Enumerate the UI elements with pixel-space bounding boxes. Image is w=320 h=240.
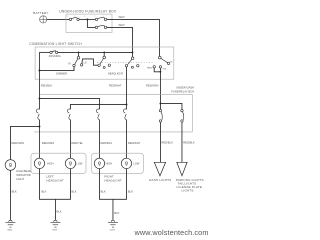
svg-text:BLK: BLK	[41, 190, 46, 194]
ground G201	[50, 220, 60, 231]
wire battery to under-hood box	[47, 18, 70, 20]
fuse F4	[159, 109, 162, 122]
svg-text:HEADLIGHT: HEADLIGHT	[104, 178, 122, 182]
node dimmer stub	[78, 52, 80, 54]
ground G401	[5, 220, 15, 231]
svg-text:BATTERY: BATTERY	[33, 11, 48, 15]
svg-text:BLK: BLK	[114, 211, 119, 215]
svg-text:G201: G201	[52, 229, 58, 231]
mechanical linkage dotted line	[97, 61, 154, 63]
wire RED/BLK vertical	[38, 52, 40, 79]
fuse F2	[95, 18, 106, 21]
svg-text:HI: HI	[68, 64, 71, 66]
left headlight box	[31, 153, 86, 173]
bus low beams	[70, 104, 126, 109]
wire F1 to junction	[79, 18, 87, 20]
svg-text:RED/BLK: RED/BLK	[161, 140, 173, 144]
wire WHT2	[107, 23, 133, 53]
wire to fuse 1	[159, 103, 161, 109]
svg-text:FUSE/RELAY BOX: FUSE/RELAY BOX	[171, 90, 194, 94]
svg-text:RED/BLU: RED/BLU	[101, 141, 113, 145]
connector col4	[96, 109, 99, 120]
svg-text:RED/YEL: RED/YEL	[72, 141, 84, 145]
svg-text:HEADLIGHT: HEADLIGHT	[108, 71, 124, 75]
right high bulb	[94, 158, 112, 168]
wire fuse1 to dash lights triangle	[159, 122, 161, 162]
fuse F3	[95, 26, 106, 29]
headlight switch pole B	[125, 57, 139, 68]
right low bulb	[121, 158, 140, 168]
off-page arrow parking lights	[177, 162, 187, 176]
wire RED/GRN	[159, 68, 161, 103]
svg-text:HEADLIGHT: HEADLIGHT	[46, 178, 64, 182]
svg-text:RED/BLK: RED/BLK	[183, 140, 195, 144]
left low bulb	[65, 158, 83, 168]
off-page arrow dash lights	[154, 162, 165, 176]
top row wire	[39, 51, 49, 53]
wire high beam indicator branch	[10, 126, 39, 159]
svg-text:LIGHT: LIGHT	[16, 177, 24, 181]
connector col3	[67, 109, 70, 120]
node row end	[132, 51, 134, 53]
junction node	[86, 18, 88, 20]
node pole A stub	[103, 52, 105, 54]
svg-text:UNDER-HOOD FUSE/RELAY BOX: UNDER-HOOD FUSE/RELAY BOX	[59, 9, 117, 13]
svg-text:BLK: BLK	[72, 190, 77, 194]
svg-text:G401: G401	[7, 229, 13, 231]
row from passing to end	[58, 51, 133, 53]
svg-text:BLK: BLK	[101, 190, 106, 194]
svg-text:LIGHTS: LIGHTS	[182, 188, 194, 192]
svg-text:HIGH: HIGH	[47, 162, 54, 166]
svg-text:TNS: TNS	[162, 69, 167, 71]
svg-text:LOW: LOW	[76, 162, 82, 166]
svg-text:BLK: BLK	[57, 210, 62, 214]
high beam indicator light	[5, 160, 32, 181]
wire drop junction to lower row	[87, 19, 95, 27]
ground G202	[108, 220, 118, 231]
wire junction to F2	[87, 18, 95, 20]
svg-text:RED/GRN: RED/GRN	[12, 141, 24, 145]
under-dash junction	[160, 103, 162, 105]
svg-text:www.wolstentech.com: www.wolstentech.com	[134, 228, 209, 237]
wire lighting switch jog	[154, 68, 160, 72]
svg-text:WHT: WHT	[119, 23, 126, 27]
wire indicator ground	[9, 170, 11, 220]
bus high beams	[39, 98, 99, 109]
right headlight box	[92, 153, 144, 173]
svg-text:RED/BLK: RED/BLK	[41, 84, 53, 88]
svg-text:HL: HL	[170, 61, 172, 63]
svg-text:WHT: WHT	[119, 15, 126, 19]
svg-text:DASH LIGHTS: DASH LIGHTS	[149, 178, 171, 182]
svg-text:RED/GRN: RED/GRN	[42, 141, 54, 145]
svg-text:BLK: BLK	[128, 190, 133, 194]
wire col4 lower	[98, 120, 100, 159]
svg-text:RED/WHT: RED/WHT	[128, 141, 141, 145]
wires left headlight grounds	[39, 169, 70, 200]
svg-text:UNDER-DASH: UNDER-DASH	[176, 86, 194, 90]
wire branch to fuse 2	[160, 103, 182, 109]
connector col2	[36, 109, 39, 120]
wire WHT1	[107, 15, 160, 56]
wire col2 RED/GRN left high	[38, 79, 40, 109]
svg-text:PARK: PARK	[147, 66, 153, 69]
connector col5	[123, 109, 126, 120]
under-hood fuse/relay box	[59, 9, 117, 32]
wire dimmer LO link	[82, 59, 98, 65]
svg-text:BLK: BLK	[12, 190, 17, 194]
wire dimmer HI bus	[39, 67, 74, 71]
wire col5 RED/WHT	[125, 67, 127, 109]
svg-text:HIGH: HIGH	[106, 162, 113, 166]
headlight switch pole A	[98, 56, 124, 75]
svg-text:RED/WHT: RED/WHT	[109, 84, 122, 88]
svg-text:COMBINATION LIGHT SWITCH: COMBINATION LIGHT SWITCH	[29, 42, 82, 46]
battery	[33, 11, 48, 23]
wire fuse2 to parking lights triangle	[181, 122, 183, 162]
passing switch	[49, 51, 61, 58]
svg-text:LO: LO	[84, 63, 87, 65]
fuse F5	[181, 109, 184, 122]
svg-text:INDICATOR: INDICATOR	[16, 173, 31, 177]
lighting switch (right)	[147, 56, 173, 70]
svg-text:LOW: LOW	[133, 162, 139, 166]
terminal ticks	[68, 16, 103, 17]
fuse F1	[69, 18, 79, 21]
wire col3 lower	[69, 120, 71, 159]
svg-text:G202: G202	[110, 229, 116, 231]
wires right headlight grounds	[99, 169, 126, 200]
svg-text:PASSING: PASSING	[49, 54, 61, 58]
under-dash fuse/relay box	[34, 86, 194, 132]
dimmer switch	[56, 56, 87, 75]
combination light switch box	[29, 42, 174, 79]
svg-text:RED/GRN: RED/GRN	[146, 84, 158, 88]
svg-text:DIMMER: DIMMER	[56, 71, 67, 75]
left high bulb	[34, 158, 53, 168]
svg-text:HIGH BEAM: HIGH BEAM	[16, 169, 32, 173]
